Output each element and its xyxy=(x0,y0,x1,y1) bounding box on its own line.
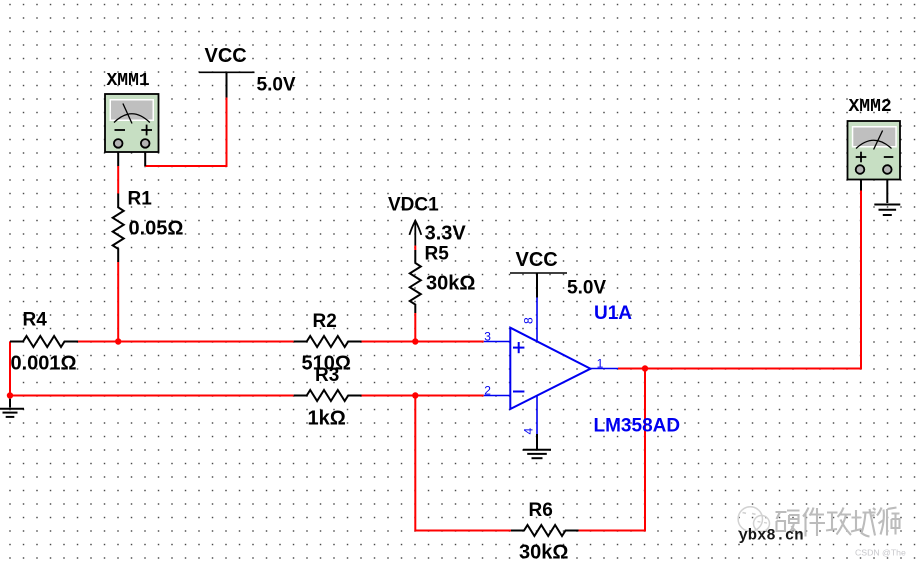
multimeter XMM2 body xyxy=(848,121,901,180)
svg-text:3: 3 xyxy=(484,329,491,343)
wire VCC1 stub xyxy=(226,72,228,97)
wire XMM2 plus stub xyxy=(860,173,862,191)
node R5/top net xyxy=(412,338,418,344)
wire pin4 to ground xyxy=(536,434,538,449)
resistor R5 body xyxy=(410,250,421,313)
ground under op-amp pin4 xyxy=(523,450,551,458)
wire R2 right to pin3 xyxy=(362,341,484,343)
ground under XMM2 xyxy=(874,205,900,216)
svg-text:R1: R1 xyxy=(128,189,153,210)
svg-text:LM358AD: LM358AD xyxy=(594,416,681,437)
wire VDC1 to R5 xyxy=(414,246,416,251)
node ground/lower net xyxy=(7,392,13,398)
svg-text:30kΩ: 30kΩ xyxy=(426,273,475,295)
svg-text:8: 8 xyxy=(522,317,536,324)
svg-text:30kΩ: 30kΩ xyxy=(519,542,568,564)
wire op-amp pin 8 supply lead xyxy=(536,298,538,343)
wire op-amp pin 1 output lead xyxy=(590,368,618,370)
svg-text:3.3V: 3.3V xyxy=(425,223,467,245)
ground under R4 xyxy=(0,399,24,417)
svg-text:CSDN @The: CSDN @The xyxy=(855,548,906,558)
resistor R4 body xyxy=(10,336,78,347)
wire: black stubs xyxy=(118,72,887,449)
svg-text:R2: R2 xyxy=(313,311,337,332)
resistor R3 body xyxy=(294,390,362,401)
wire op-amp pin 2 lead xyxy=(484,395,510,397)
svg-text:1kΩ: 1kΩ xyxy=(308,408,346,430)
svg-text:2: 2 xyxy=(484,383,491,397)
svg-text:VDC1: VDC1 xyxy=(388,195,439,216)
resistor R2 body xyxy=(294,336,362,347)
svg-text:ybx8.cn: ybx8.cn xyxy=(739,527,804,545)
watermark logo circles xyxy=(738,507,769,532)
wire XMM2 minus stub xyxy=(886,173,888,203)
wire: red net segments xyxy=(10,98,861,531)
svg-text:R4: R4 xyxy=(23,310,48,331)
svg-text:4: 4 xyxy=(522,428,536,435)
svg-text:0.05Ω: 0.05Ω xyxy=(129,218,184,240)
wire op-amp pin 3 lead xyxy=(484,341,510,343)
node feedback/lower net xyxy=(412,392,418,398)
svg-text:0.001Ω: 0.001Ω xyxy=(11,353,77,375)
resistor R1 body xyxy=(113,194,124,263)
wire VCC1 down to XMM1 plus xyxy=(145,98,226,167)
wire op-amp pin 4 supply lead xyxy=(536,396,538,434)
junction dots xyxy=(7,338,648,398)
op-amp U1A triangle xyxy=(510,328,590,409)
svg-text:VCC: VCC xyxy=(205,45,247,67)
svg-text:R3: R3 xyxy=(315,365,339,386)
multimeter XMM1 body xyxy=(105,94,159,152)
svg-text:U1A: U1A xyxy=(594,303,632,324)
svg-text:1: 1 xyxy=(597,356,604,370)
svg-text:VCC: VCC xyxy=(516,249,558,271)
svg-text:5.0V: 5.0V xyxy=(257,74,296,95)
wire VCC2 stub xyxy=(536,273,538,298)
node output xyxy=(642,365,648,371)
wire output to XMM2 xyxy=(618,191,861,369)
wire R5 bottom to top net xyxy=(414,313,416,342)
wire R4 right to R2 left xyxy=(78,341,294,343)
svg-text:XMM2: XMM2 xyxy=(849,97,892,117)
wire feedback down xyxy=(415,396,511,531)
wire R3 right to pin2 xyxy=(362,395,484,397)
source VDC1 arrow symbol xyxy=(409,221,421,246)
resistor R6 body xyxy=(511,525,579,536)
svg-text:XMM1: XMM1 xyxy=(107,71,150,91)
power symbol VCC (op-amp supply) xyxy=(510,272,567,274)
wire R4 left down xyxy=(9,342,11,396)
wire XMM1 minus stub xyxy=(117,147,119,166)
wire R6 right up to output xyxy=(579,369,646,531)
watermark hanzi xyxy=(776,508,900,537)
svg-text:5.0V: 5.0V xyxy=(567,277,606,298)
svg-text:R6: R6 xyxy=(529,500,553,521)
wire XMM1 minus to R1 top xyxy=(117,166,119,194)
wire XMM1 plus stub xyxy=(144,147,146,166)
power symbol VCC (top) xyxy=(199,71,255,73)
svg-text:R5: R5 xyxy=(425,244,450,265)
wire lower net to R3 xyxy=(10,395,294,397)
wire R1 bottom to top net xyxy=(117,262,119,342)
node R1/top net xyxy=(115,338,121,344)
